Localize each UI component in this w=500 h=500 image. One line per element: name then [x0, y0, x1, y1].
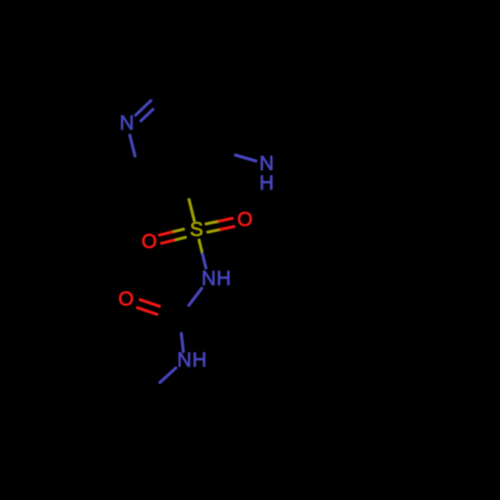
bond C3-S [189, 200, 194, 221]
svg-text:O: O [237, 209, 253, 231]
svg-text:H: H [259, 173, 273, 195]
svg-text:O: O [142, 231, 158, 253]
bond N-C7 (urea) [189, 288, 202, 305]
bond N1-C2 (pyridine) [130, 135, 135, 156]
bond S=O right [206, 218, 234, 232]
bond C7-N (urea) [181, 333, 183, 351]
svg-text:N: N [177, 349, 191, 371]
svg-text:H: H [216, 268, 230, 290]
bond N1=C6 (pyridine) [136, 101, 153, 121]
svg-text:H: H [192, 349, 206, 371]
svg-text:O: O [118, 288, 134, 310]
bond S-N (sulfonamide) [199, 240, 206, 268]
bond N-cyclohexyl [160, 368, 176, 383]
svg-text:S: S [190, 219, 203, 241]
bond C7=O (carbonyl) [137, 300, 159, 315]
bond S=O left [159, 229, 185, 243]
svg-text:N: N [201, 268, 215, 290]
bond C4-NH (anilino) [235, 155, 256, 161]
svg-text:N: N [120, 113, 134, 135]
